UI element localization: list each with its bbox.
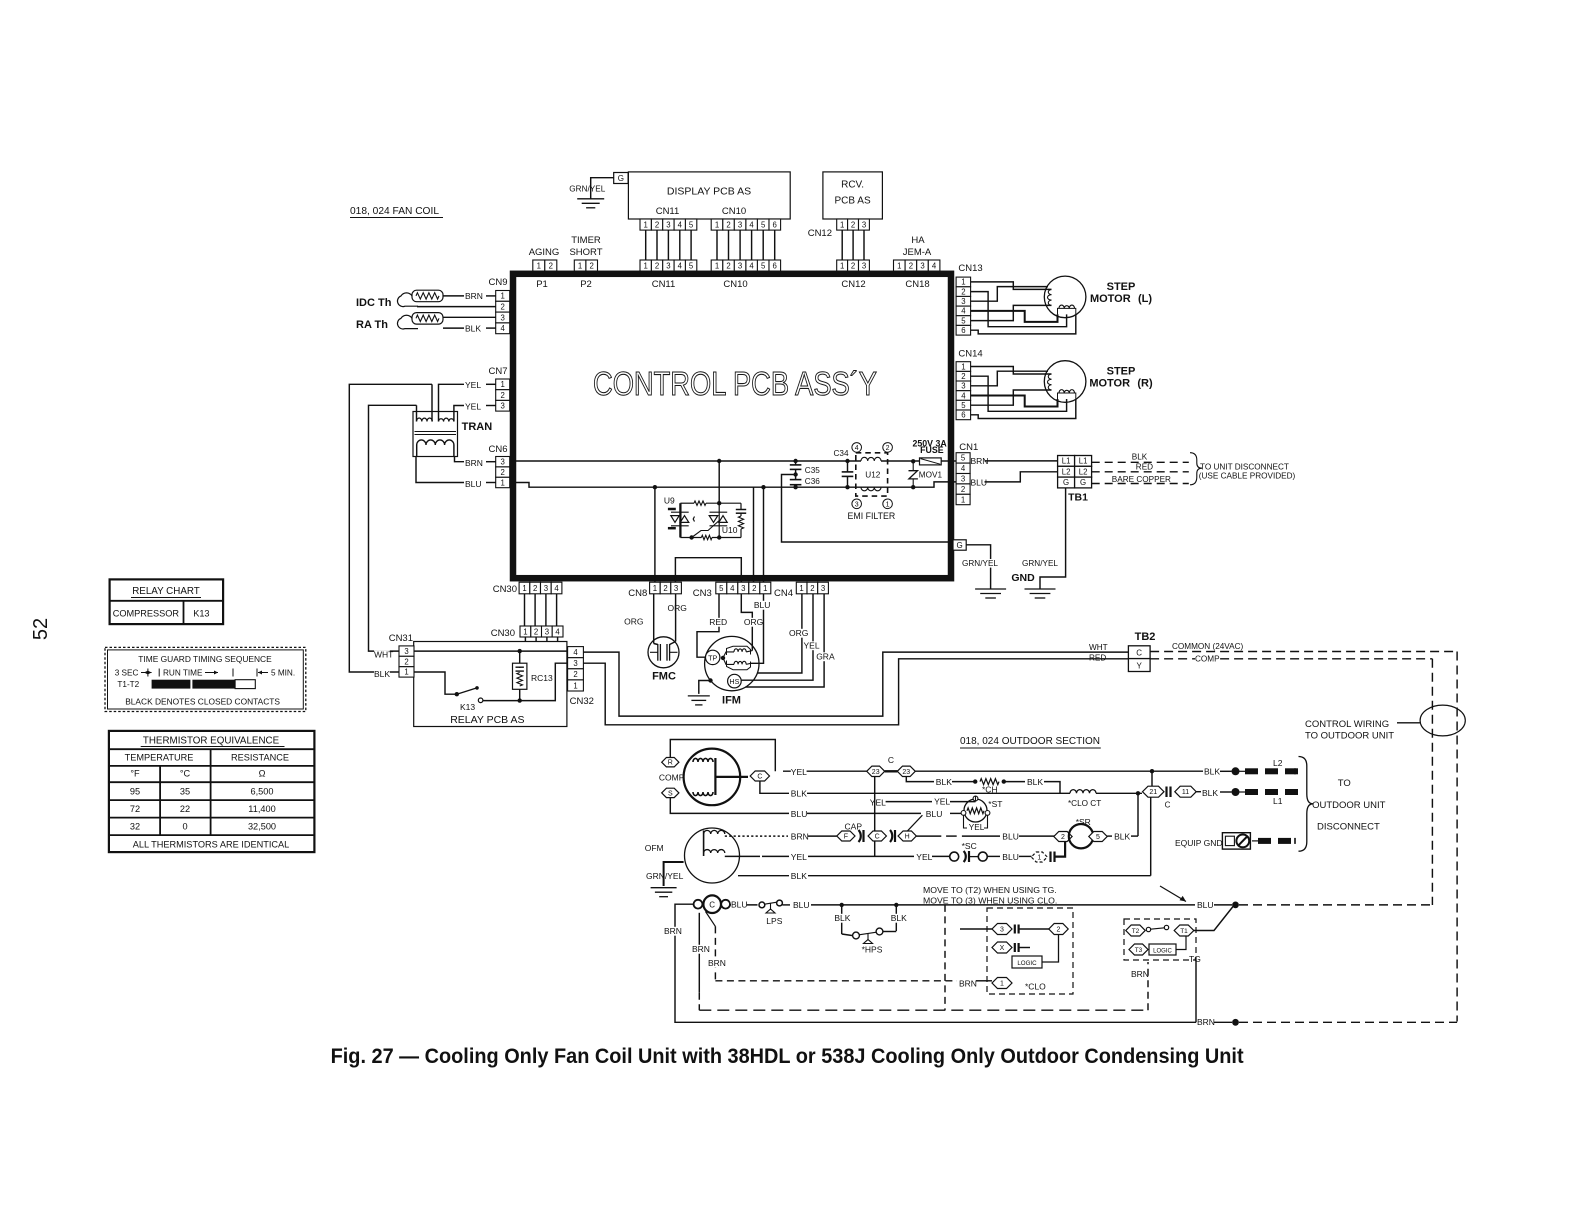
svg-text:OUTDOOR UNIT: OUTDOOR UNIT	[1312, 800, 1386, 811]
svg-text:C: C	[1136, 648, 1142, 657]
svg-text:4: 4	[932, 261, 937, 270]
svg-text:*ST: *ST	[988, 799, 1002, 809]
svg-text:3: 3	[501, 402, 505, 411]
svg-text:TIME GUARD TIMING SEQUENCE: TIME GUARD TIMING SEQUENCE	[138, 654, 272, 664]
svg-text:G: G	[1063, 478, 1069, 487]
svg-text:CN10: CN10	[722, 206, 746, 217]
svg-text:1: 1	[961, 278, 965, 287]
svg-text:GRN/YEL: GRN/YEL	[1022, 559, 1058, 568]
svg-text:R: R	[668, 760, 673, 767]
svg-text:L1: L1	[1079, 457, 1088, 466]
svg-text:3: 3	[821, 584, 825, 593]
svg-text:21: 21	[1149, 789, 1157, 796]
svg-text:RED: RED	[1089, 654, 1106, 663]
svg-text:3: 3	[862, 220, 866, 229]
svg-text:SHORT: SHORT	[569, 247, 602, 258]
svg-text:4: 4	[555, 627, 560, 636]
svg-text:GRN/YEL: GRN/YEL	[646, 871, 684, 881]
svg-text:T1: T1	[1180, 928, 1188, 935]
svg-text:018, 024 OUTDOOR SECTION: 018, 024 OUTDOOR SECTION	[960, 735, 1100, 747]
svg-text:Fig. 27 — Cooling Only Fan Coi: Fig. 27 — Cooling Only Fan Coil Unit wit…	[331, 1044, 1244, 1068]
svg-text:1: 1	[1000, 981, 1004, 988]
svg-text:CN3: CN3	[693, 588, 712, 599]
svg-text:RCV.: RCV.	[841, 180, 864, 191]
svg-text:4: 4	[501, 324, 506, 333]
svg-text:G: G	[618, 174, 624, 183]
svg-text:3: 3	[961, 382, 965, 391]
svg-text:BRN: BRN	[465, 291, 483, 301]
svg-text:1: 1	[1037, 855, 1041, 862]
svg-text:1: 1	[715, 261, 719, 270]
svg-text:MOVE TO (T2) WHEN USING TG.: MOVE TO (T2) WHEN USING TG.	[923, 885, 1057, 895]
svg-text:YEL: YEL	[804, 641, 820, 651]
svg-text:1: 1	[644, 220, 648, 229]
svg-text:3: 3	[501, 313, 505, 322]
svg-text:TB2: TB2	[1135, 631, 1156, 643]
svg-text:TO: TO	[1338, 778, 1351, 789]
svg-text:RUN TIME: RUN TIME	[163, 669, 203, 678]
svg-text:BLACK DENOTES CLOSED CONTACTS: BLACK DENOTES CLOSED CONTACTS	[125, 697, 280, 707]
svg-text:C: C	[709, 901, 715, 910]
svg-text:C: C	[757, 774, 762, 781]
svg-text:BLK: BLK	[1027, 777, 1043, 787]
svg-text:CN18: CN18	[905, 279, 929, 290]
svg-text:BLU: BLU	[926, 809, 943, 819]
svg-text:CN11: CN11	[652, 279, 676, 290]
svg-text:018, 024 FAN COIL: 018, 024 FAN COIL	[350, 205, 439, 217]
svg-text:T1-T2: T1-T2	[117, 680, 139, 689]
svg-text:1: 1	[763, 584, 767, 593]
svg-text:CN9: CN9	[488, 277, 507, 288]
svg-text:YEL: YEL	[969, 823, 985, 832]
svg-text:3: 3	[666, 261, 670, 270]
svg-text:22: 22	[180, 804, 190, 814]
svg-text:1: 1	[961, 362, 965, 371]
svg-text:4: 4	[961, 307, 966, 316]
svg-text:2: 2	[886, 445, 890, 452]
svg-text:2: 2	[1061, 834, 1065, 841]
svg-text:STEP: STEP	[1107, 281, 1136, 293]
svg-text:4: 4	[573, 648, 578, 657]
svg-text:EMI FILTER: EMI FILTER	[848, 511, 896, 521]
svg-text:6: 6	[961, 411, 965, 420]
svg-text:C36: C36	[805, 477, 820, 486]
svg-text:THERMISTOR EQUIVALENCE: THERMISTOR EQUIVALENCE	[143, 736, 280, 747]
svg-text:C: C	[1165, 801, 1171, 810]
svg-text:2: 2	[810, 584, 814, 593]
svg-text:BRN: BRN	[465, 458, 483, 468]
svg-text:4: 4	[730, 584, 735, 593]
svg-text:CN4: CN4	[774, 588, 793, 599]
svg-text:2: 2	[573, 670, 577, 679]
svg-text:BARE COPPER: BARE COPPER	[1112, 475, 1171, 484]
svg-text:L2: L2	[1079, 467, 1088, 476]
svg-text:DISCONNECT: DISCONNECT	[1317, 822, 1380, 833]
svg-text:LOGIC: LOGIC	[1153, 949, 1172, 955]
svg-text:RED: RED	[1136, 462, 1153, 471]
svg-text:LOGIC: LOGIC	[1017, 960, 1037, 967]
svg-text:GRN/YEL: GRN/YEL	[962, 559, 998, 568]
svg-text:BRN: BRN	[664, 926, 682, 936]
svg-text:1: 1	[840, 220, 844, 229]
svg-text:BRN: BRN	[791, 832, 809, 842]
svg-text:3: 3	[961, 475, 965, 484]
svg-text:BRN: BRN	[1131, 969, 1149, 979]
svg-text:CN8: CN8	[628, 588, 647, 599]
svg-text:2: 2	[590, 261, 594, 270]
svg-text:1: 1	[961, 495, 965, 504]
svg-text:COMMON (24VAC): COMMON (24VAC)	[1172, 642, 1244, 651]
svg-text:MOV1: MOV1	[919, 471, 943, 480]
svg-text:*HPS: *HPS	[862, 945, 883, 955]
svg-text:BLK: BLK	[1114, 832, 1130, 842]
svg-text:95: 95	[130, 787, 140, 797]
svg-text:C: C	[875, 834, 880, 841]
svg-text:35: 35	[180, 787, 190, 797]
svg-text:2: 2	[851, 261, 855, 270]
svg-text:72: 72	[130, 804, 140, 814]
svg-text:WHT: WHT	[374, 650, 393, 660]
svg-text:4: 4	[678, 220, 683, 229]
svg-text:BLK: BLK	[1132, 452, 1148, 461]
svg-text:TRAN: TRAN	[462, 421, 493, 433]
svg-text:COMP: COMP	[659, 773, 685, 783]
svg-text:BLU: BLU	[1002, 832, 1019, 842]
svg-text:2: 2	[961, 287, 965, 296]
svg-text:MOTOR (R): MOTOR (R)	[1089, 378, 1153, 390]
svg-text:4: 4	[749, 220, 754, 229]
svg-text:ORG: ORG	[744, 617, 763, 627]
svg-text:2: 2	[655, 261, 659, 270]
svg-text:°F: °F	[130, 769, 140, 779]
svg-text:Ω: Ω	[259, 769, 266, 779]
svg-text:BLK: BLK	[1202, 788, 1218, 798]
svg-text:IDC Th: IDC Th	[356, 297, 392, 309]
svg-text:YEL: YEL	[870, 798, 886, 808]
svg-text:5: 5	[689, 220, 694, 229]
svg-text:32,500: 32,500	[248, 822, 276, 832]
svg-text:52: 52	[30, 618, 52, 640]
svg-text:Y: Y	[1137, 661, 1143, 670]
svg-text:BLU: BLU	[1002, 852, 1019, 862]
svg-text:5: 5	[1096, 834, 1100, 841]
svg-text:5: 5	[961, 401, 966, 410]
svg-text:2: 2	[501, 303, 505, 312]
svg-text:T3: T3	[1135, 947, 1143, 954]
svg-text:GRN/YEL: GRN/YEL	[569, 185, 605, 194]
svg-text:U12: U12	[865, 470, 880, 479]
svg-text:C35: C35	[805, 466, 820, 475]
svg-text:5: 5	[961, 454, 966, 463]
svg-text:5: 5	[689, 261, 694, 270]
svg-text:*SC: *SC	[962, 841, 977, 851]
svg-text:1: 1	[840, 261, 844, 270]
svg-text:ORG: ORG	[624, 617, 643, 627]
svg-text:1: 1	[501, 380, 505, 389]
svg-text:WHT: WHT	[1089, 643, 1108, 652]
svg-text:L1: L1	[1273, 796, 1283, 806]
svg-text:RC13: RC13	[531, 673, 553, 683]
svg-text:11,400: 11,400	[248, 804, 275, 814]
svg-text:G: G	[956, 541, 962, 550]
svg-text:4: 4	[554, 584, 559, 593]
svg-text:S: S	[668, 790, 673, 797]
svg-text:BRN: BRN	[708, 958, 726, 968]
svg-text:3: 3	[741, 584, 745, 593]
svg-text:3: 3	[961, 297, 965, 306]
svg-text:1: 1	[653, 584, 657, 593]
svg-text:RA Th: RA Th	[356, 319, 388, 331]
svg-text:1: 1	[886, 501, 890, 508]
svg-text:HS: HS	[729, 677, 739, 686]
svg-text:T2: T2	[1132, 928, 1140, 935]
svg-text:CN6: CN6	[488, 444, 507, 455]
svg-text:EQUIP GND: EQUIP GND	[1175, 838, 1223, 848]
svg-text:CONTROL PCB ASS´Y: CONTROL PCB ASS´Y	[593, 365, 877, 402]
svg-text:C: C	[888, 755, 894, 765]
svg-text:CN12: CN12	[841, 279, 865, 290]
svg-text:CN30: CN30	[491, 628, 515, 639]
svg-text:RELAY CHART: RELAY CHART	[132, 586, 200, 597]
svg-text:BLK: BLK	[891, 913, 907, 923]
svg-text:3: 3	[674, 584, 678, 593]
svg-text:1: 1	[644, 261, 648, 270]
svg-text:YEL: YEL	[934, 797, 950, 807]
svg-text:BLK: BLK	[791, 789, 807, 799]
svg-text:CN12: CN12	[808, 228, 832, 239]
svg-text:COMPRESSOR: COMPRESSOR	[113, 609, 180, 619]
svg-text:4: 4	[855, 445, 859, 452]
svg-text:BLU: BLU	[791, 809, 808, 819]
svg-text:RED: RED	[709, 617, 727, 627]
svg-text:YEL: YEL	[465, 402, 481, 412]
svg-text:CN1: CN1	[959, 442, 978, 453]
svg-text:TO UNIT DISCONNECT: TO UNIT DISCONNECT	[1200, 463, 1289, 472]
svg-text:CN30: CN30	[493, 584, 517, 595]
svg-text:L1: L1	[1062, 457, 1071, 466]
svg-text:HA: HA	[911, 235, 925, 246]
svg-text:5: 5	[719, 584, 724, 593]
svg-text:CONTROL WIRING: CONTROL WIRING	[1305, 719, 1389, 730]
svg-text:2: 2	[534, 627, 538, 636]
svg-text:°C: °C	[180, 769, 191, 779]
svg-text:1: 1	[404, 668, 408, 677]
svg-text:BLU: BLU	[731, 900, 748, 910]
svg-text:BLK: BLK	[936, 777, 952, 787]
svg-text:BLK: BLK	[465, 324, 481, 334]
svg-text:3: 3	[501, 458, 505, 467]
svg-text:23: 23	[902, 769, 910, 776]
svg-text:3: 3	[920, 261, 924, 270]
svg-text:X: X	[1000, 945, 1005, 952]
svg-text:6: 6	[773, 220, 777, 229]
svg-text:0: 0	[182, 822, 187, 832]
svg-text:P1: P1	[536, 279, 548, 290]
svg-text:L2: L2	[1273, 758, 1283, 768]
svg-text:3: 3	[545, 627, 549, 636]
svg-text:TP: TP	[708, 653, 717, 662]
svg-text:2: 2	[726, 220, 730, 229]
svg-text:2: 2	[663, 584, 667, 593]
svg-text:BLU: BLU	[465, 479, 482, 489]
svg-text:BLK: BLK	[791, 871, 807, 881]
svg-text:3: 3	[738, 261, 742, 270]
svg-text:5 MIN.: 5 MIN.	[271, 669, 295, 678]
svg-text:OFM: OFM	[645, 843, 664, 853]
svg-text:1: 1	[523, 627, 527, 636]
svg-text:MOTOR (L): MOTOR (L)	[1090, 293, 1152, 305]
svg-text:1: 1	[897, 261, 901, 270]
svg-text:K13: K13	[460, 702, 475, 712]
svg-text:4: 4	[961, 464, 966, 473]
svg-text:2: 2	[404, 657, 408, 666]
svg-text:*SR: *SR	[1076, 817, 1091, 827]
svg-text:ALL THERMISTORS ARE IDENTICAL: ALL THERMISTORS ARE IDENTICAL	[133, 840, 290, 850]
svg-text:GRA: GRA	[816, 652, 835, 662]
svg-text:FMC: FMC	[652, 671, 676, 683]
svg-text:COMP: COMP	[1195, 655, 1220, 664]
svg-text:H: H	[905, 834, 910, 841]
svg-text:RELAY PCB AS: RELAY PCB AS	[450, 714, 524, 726]
svg-text:GND: GND	[1011, 572, 1035, 584]
svg-text:STEP: STEP	[1107, 366, 1136, 378]
svg-text:RESISTANCE: RESISTANCE	[231, 753, 289, 763]
svg-text:YEL: YEL	[465, 380, 481, 390]
svg-text:TEMPERATURE: TEMPERATURE	[125, 753, 194, 763]
svg-text:3: 3	[666, 220, 670, 229]
svg-text:3: 3	[738, 220, 742, 229]
svg-text:BLU: BLU	[793, 900, 810, 910]
svg-text:2: 2	[1057, 927, 1061, 934]
svg-text:BLK: BLK	[374, 669, 390, 679]
svg-text:(USE CABLE PROVIDED): (USE CABLE PROVIDED)	[1199, 472, 1296, 481]
svg-text:TG: TG	[1189, 954, 1201, 964]
svg-text:32: 32	[130, 822, 140, 832]
svg-text:2: 2	[961, 372, 965, 381]
svg-text:2: 2	[752, 584, 756, 593]
svg-text:IFM: IFM	[722, 695, 741, 707]
svg-text:2: 2	[851, 220, 855, 229]
svg-text:3: 3	[573, 659, 577, 668]
svg-text:MOVE TO (3) WHEN USING CLO.: MOVE TO (3) WHEN USING CLO.	[923, 896, 1057, 906]
svg-text:YEL: YEL	[916, 852, 932, 862]
svg-text:BRN: BRN	[959, 979, 977, 989]
svg-text:PCB AS: PCB AS	[835, 196, 871, 207]
svg-text:JEM-A: JEM-A	[903, 247, 932, 258]
svg-text:P2: P2	[580, 279, 592, 290]
svg-text:1: 1	[578, 261, 582, 270]
svg-text:1: 1	[799, 584, 803, 593]
svg-text:2: 2	[909, 261, 913, 270]
svg-text:CN32: CN32	[570, 696, 594, 707]
svg-text:C34: C34	[834, 449, 849, 458]
svg-text:FUSE: FUSE	[920, 445, 944, 455]
svg-text:BLU: BLU	[1197, 900, 1214, 910]
svg-text:1: 1	[522, 584, 526, 593]
svg-text:G: G	[1080, 478, 1086, 487]
svg-text:CN10: CN10	[723, 279, 747, 290]
svg-text:2: 2	[961, 485, 965, 494]
svg-text:BRN: BRN	[692, 944, 710, 954]
svg-text:5: 5	[761, 220, 766, 229]
svg-text:2: 2	[501, 468, 505, 477]
svg-text:K13: K13	[193, 609, 209, 619]
svg-text:2: 2	[549, 261, 553, 270]
svg-text:ORG: ORG	[789, 628, 808, 638]
svg-text:BRN: BRN	[1197, 1017, 1215, 1027]
svg-text:2: 2	[655, 220, 659, 229]
svg-text:1: 1	[573, 681, 577, 690]
svg-text:11: 11	[1182, 789, 1189, 796]
svg-text:*CLO CT: *CLO CT	[1068, 799, 1101, 808]
svg-text:3: 3	[544, 584, 548, 593]
svg-text:BLU: BLU	[754, 600, 771, 610]
svg-text:CN7: CN7	[488, 366, 507, 377]
svg-text:23: 23	[872, 769, 880, 776]
svg-text:TIMER: TIMER	[571, 235, 601, 246]
svg-text:CN14: CN14	[958, 349, 982, 360]
svg-text:YEL: YEL	[791, 767, 807, 777]
svg-text:*CLO: *CLO	[1025, 982, 1046, 992]
svg-text:CN11: CN11	[656, 206, 680, 217]
svg-text:2: 2	[726, 261, 730, 270]
svg-text:4: 4	[961, 391, 966, 400]
svg-text:U10: U10	[722, 525, 738, 535]
svg-text:3: 3	[862, 261, 866, 270]
svg-text:6: 6	[961, 326, 965, 335]
svg-text:DISPLAY PCB AS: DISPLAY PCB AS	[667, 186, 751, 198]
svg-text:F: F	[844, 834, 848, 841]
svg-text:1: 1	[501, 292, 505, 301]
svg-text:L2: L2	[1062, 467, 1071, 476]
svg-text:3 SEC: 3 SEC	[115, 669, 139, 678]
svg-text:1: 1	[501, 478, 505, 487]
svg-text:TO OUTDOOR UNIT: TO OUTDOOR UNIT	[1305, 731, 1394, 742]
svg-text:ORG: ORG	[668, 603, 687, 613]
svg-text:LPS: LPS	[766, 916, 782, 926]
svg-text:3: 3	[1000, 927, 1004, 934]
svg-text:BLK: BLK	[1204, 767, 1220, 777]
svg-text:AGING: AGING	[529, 247, 560, 258]
svg-text:6: 6	[773, 261, 777, 270]
svg-text:2: 2	[501, 391, 505, 400]
svg-text:3: 3	[404, 647, 408, 656]
svg-text:4: 4	[749, 261, 754, 270]
svg-text:CN31: CN31	[389, 633, 413, 644]
svg-text:2: 2	[533, 584, 537, 593]
svg-text:6,500: 6,500	[251, 787, 274, 797]
svg-text:3: 3	[855, 501, 859, 508]
svg-text:4: 4	[678, 261, 683, 270]
svg-text:1: 1	[715, 220, 719, 229]
svg-text:5: 5	[961, 316, 966, 325]
svg-text:5: 5	[761, 261, 766, 270]
svg-text:BLK: BLK	[834, 913, 850, 923]
svg-text:YEL: YEL	[791, 852, 807, 862]
svg-text:1: 1	[537, 261, 541, 270]
svg-text:CN13: CN13	[958, 263, 982, 274]
svg-text:U9: U9	[664, 496, 675, 506]
svg-text:TB1: TB1	[1068, 492, 1088, 504]
